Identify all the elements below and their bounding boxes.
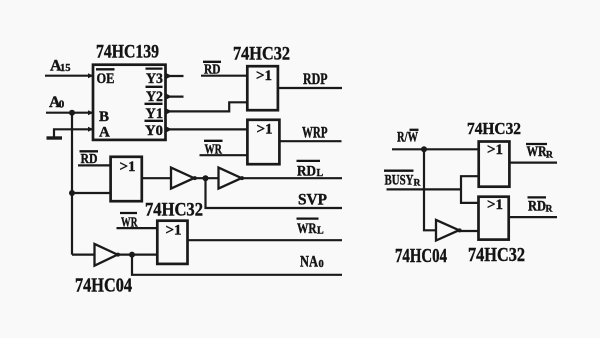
svg-text:SVP: SVP [298,192,327,209]
wire RD to gate U2c [78,164,111,166]
svg-text:B: B [99,109,109,125]
svg-text:R: R [546,205,553,215]
wire BUSYR [387,188,462,190]
svg-text:A: A [99,124,110,140]
node A15 label [50,57,71,74]
wire NA0 [132,255,342,275]
svg-text:RD: RD [528,199,546,215]
or-gate U4b [479,197,509,240]
node RD label (gate U2c input) [80,151,99,167]
node WRR label [526,144,553,160]
node RDL label [297,161,324,179]
svg-text:Y2: Y2 [146,89,163,105]
svg-text:74HC32: 74HC32 [468,244,525,266]
wire WR to gate U2b [200,154,248,156]
wire Y3 stub [166,75,184,77]
or-gate U2c [111,157,142,201]
wire Y0 to OR gate U2b [166,128,248,130]
ground bar [47,136,63,139]
wire A15 to OE [45,75,93,77]
wire gate U2c output [142,177,171,179]
svg-text:R: R [546,150,553,160]
pin wedge A [88,127,94,132]
wire Y1 to OR gate U2a [166,102,248,111]
svg-text:WR: WR [297,221,317,237]
svg-text:WR: WR [527,144,547,160]
wire R/W to gate U4a [392,148,479,150]
pin wedge Y1 [166,108,173,115]
pin wedge Y0 [166,126,173,133]
svg-text:15: 15 [60,63,71,74]
IC U1 74HC139 body [93,65,166,140]
wire SVP [206,178,343,208]
node WR label (gate U2d input) [120,213,138,231]
svg-text:>1: >1 [487,197,503,213]
svg-text:Y1: Y1 [146,106,164,122]
pin label Y1 [145,104,164,122]
inverter U5a [436,220,459,241]
pin label OE (pin 1G) [96,69,115,87]
inverter U3b [171,168,194,189]
node A0 label [49,94,65,111]
svg-text:Y0: Y0 [145,123,163,139]
svg-text:RD: RD [297,163,316,179]
svg-text:L: L [317,168,324,179]
inverter U3c [219,168,242,189]
wire inv1 to inv2 [194,177,219,179]
wire RD to gate U2a [201,75,248,77]
pin label Y3 [146,69,164,87]
svg-text:74HC32: 74HC32 [467,119,521,138]
junction SVP tap [203,175,209,181]
wire WRL output [188,239,343,241]
wire BUSYR split [461,176,479,203]
node NA0 label [300,253,324,270]
pin wedge B [88,110,94,115]
svg-text:RDP: RDP [303,71,328,88]
svg-text:>1: >1 [487,142,503,158]
wire R/W down to inverter U5a [424,149,436,230]
svg-text:>1: >1 [257,122,273,138]
svg-text:NA: NA [300,253,319,270]
svg-text:>1: >1 [120,159,136,175]
svg-text:>1: >1 [166,222,182,238]
node BUSYR label [384,171,421,189]
junction bus/gate3 [69,190,75,196]
svg-text:0: 0 [59,99,65,111]
pin wedge OE [88,73,94,78]
pin label Y0 [145,121,164,139]
pin label Y2 [146,87,164,105]
wire WR to gate U2d [117,227,158,229]
pin wedge Y3 [166,73,173,80]
or-gate U2a [247,66,278,110]
wire inv U3a output to gate U2d [116,254,158,256]
svg-text:74HC04: 74HC04 [75,275,132,297]
inverter U3a [95,244,118,266]
svg-text:WRP: WRP [302,124,328,141]
junction A0/bus [69,110,75,116]
wire WRP output [279,140,341,142]
svg-text:74HC32: 74HC32 [145,200,203,221]
wire vertical bus from A0 [71,113,73,255]
pin wedge Y2 [166,93,173,100]
svg-text:L: L [317,226,324,237]
node RDR label [528,197,553,214]
svg-text:BUSY: BUSY [385,172,414,188]
wire WRR output [509,162,557,164]
svg-text:74HC32: 74HC32 [233,44,290,65]
wire bus to inverter U3a [72,254,95,256]
or-gate U2b [247,120,279,164]
node RD label (top) [203,62,221,78]
wire A0 to B [46,112,93,114]
node R/W label [397,130,419,146]
junction NA0 tap [129,252,135,258]
wire ground to A [54,129,93,137]
svg-text:R/W: R/W [397,130,418,146]
wire Y2 stub [166,95,184,97]
wire inv U5a to gate U4b [458,230,479,232]
svg-text:74HC139: 74HC139 [96,42,159,63]
svg-text:0: 0 [319,259,324,270]
svg-text:OE: OE [97,71,115,87]
node WR label (gate U2b input) [204,141,223,158]
svg-text:>1: >1 [256,68,272,84]
wire bus to gate U2c [72,192,111,194]
wire RDL output [241,177,343,179]
junction R/W tap [421,146,427,152]
wire RDR output [509,216,557,218]
svg-text:R: R [414,178,421,188]
or-gate U2d [157,221,187,264]
wire RDP output [278,87,342,89]
or-gate U4a [479,142,510,187]
node WRL label [297,219,325,237]
svg-text:74HC04: 74HC04 [395,245,447,267]
svg-text:Y3: Y3 [146,71,163,87]
